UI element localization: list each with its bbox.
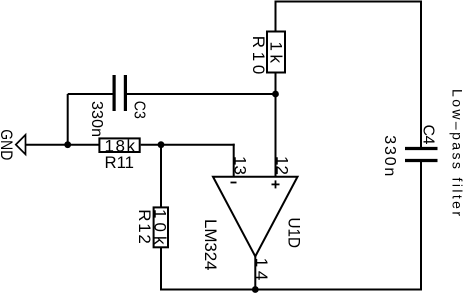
wire right vertical upper bbox=[420, 1, 422, 149]
resistor R11 bbox=[99, 138, 139, 152]
svg-text:R11: R11 bbox=[105, 153, 135, 172]
wire R10 bottom / pin 12 vertical bbox=[275, 72, 277, 177]
svg-text:LM324: LM324 bbox=[201, 219, 220, 271]
node junction dot (pin14 / bottom rail) bbox=[252, 286, 259, 293]
svg-text:C4: C4 bbox=[420, 125, 437, 145]
wire C3 left bbox=[68, 93, 114, 95]
wire R10 top bbox=[275, 1, 277, 33]
wire C3 right to junction bbox=[125, 93, 275, 95]
wire GND rail to R11 bbox=[26, 144, 100, 146]
resistor R12 bbox=[154, 207, 168, 247]
wire R12 bottom bbox=[160, 247, 162, 290]
svg-text:GND: GND bbox=[0, 129, 16, 160]
svg-text:R10: R10 bbox=[249, 36, 268, 75]
wire bottom rail bbox=[161, 289, 422, 291]
svg-text:R12: R12 bbox=[135, 209, 154, 244]
svg-text:13: 13 bbox=[231, 156, 250, 175]
capacitor C3 bbox=[112, 75, 115, 111]
wire top rail bbox=[275, 1, 423, 3]
svg-text:330n: 330n bbox=[381, 135, 398, 176]
node junction dot (GND / C3 / R11) bbox=[64, 141, 71, 148]
node junction dot (R11 / R12 / pin13) bbox=[158, 141, 165, 148]
op-amp plus input mark bbox=[272, 183, 280, 185]
wire R11 right to pin13 corner bbox=[141, 144, 235, 146]
capacitor C4 bbox=[405, 147, 438, 150]
ground symbol GND bbox=[16, 135, 26, 155]
op-amp minus input mark bbox=[231, 182, 237, 184]
node junction dot (R10 / C3 / pin12) bbox=[272, 91, 279, 98]
svg-text:C3: C3 bbox=[131, 101, 148, 119]
resistor R10 bbox=[267, 32, 285, 73]
svg-text:12: 12 bbox=[273, 156, 292, 175]
wire pin 13 vertical bbox=[233, 144, 235, 177]
wire R12 top bbox=[160, 145, 162, 208]
op-amp U1D bbox=[213, 177, 298, 257]
wire right vertical lower bbox=[420, 161, 422, 291]
wire left vertical down to GND rail bbox=[67, 94, 69, 146]
svg-text:U1D: U1D bbox=[285, 218, 304, 249]
svg-text:330n: 330n bbox=[88, 101, 105, 137]
wire pin 14 vertical bbox=[254, 255, 256, 290]
